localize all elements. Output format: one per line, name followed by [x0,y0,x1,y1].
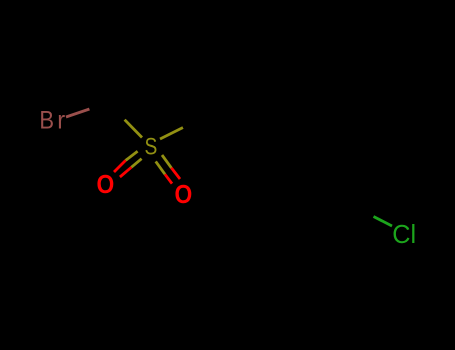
bond C1-S (carbon half, black) [110,101,125,120]
double bond S=O left, line 1 (O half) [114,160,126,172]
double bond S=O left, line 2 (S half) [131,159,141,168]
svg-text:S: S [145,132,158,160]
atom O right (oxygen label) [175,181,193,210]
atom O left (oxygen label) [97,171,115,200]
svg-text:Cl: Cl [392,221,416,249]
double bond S=O right, line 1 (O half) [171,168,180,179]
bond ring-Cl (carbon half, black) [355,207,374,217]
bond C2-ring (black) [206,116,240,140]
atom S (sulfur label) [145,132,158,160]
benzene ring inner double bond 3 (black) [248,202,290,228]
bond ring-Cl (Cl-colored half) [374,217,393,227]
bond S-C2 (carbon half, black) [183,116,206,128]
svg-text:r: r [57,107,65,135]
double bond S=O left, line 2 (O half) [120,167,131,177]
benzene ring inner double bond 2 (black) [344,150,347,198]
double bond S=O right, line 2 (S half) [156,161,165,174]
atom Cl (chlorine label) [392,221,416,249]
bond C1-S (S-colored half) [125,120,142,138]
bond S-C2 (S-colored half) [160,128,183,140]
svg-text:O: O [97,171,115,200]
atom Br (bromine label) [39,106,54,134]
double bond S=O right, line 2 (O half) [165,174,172,183]
benzene ring inner double bond 1 (black) [250,121,293,146]
bond Br-C1 (Br-colored half) [66,109,90,117]
bond Br-C1 (carbon half, black) [90,101,111,109]
double bond S=O left, line 1 (S half) [126,151,138,160]
svg-text:B: B [39,106,54,134]
double bond S=O right, line 1 (S half) [162,155,171,168]
svg-text:O: O [175,181,193,210]
benzene ring (black, invisible on black background) [240,107,356,240]
